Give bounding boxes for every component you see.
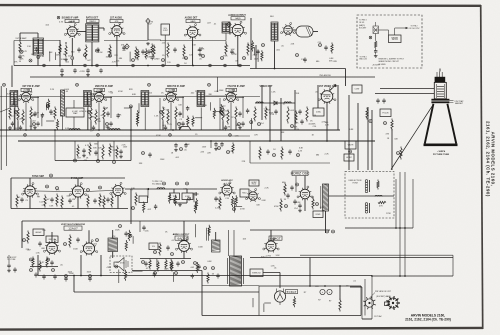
resistor R41: [44, 195, 46, 208]
capacitor C46: [214, 196, 217, 201]
capacitor C21: [94, 150, 97, 155]
capacitor C83: [99, 68, 102, 73]
wire V5 to can: [292, 29, 296, 31]
capacitor C2: [77, 47, 80, 52]
wire vert va 1: [317, 85, 319, 108]
wire bottom stub: [362, 318, 372, 320]
svg-text:1.5K: 1.5K: [192, 45, 197, 47]
svg-text:TO YOKE: TO YOKE: [7, 259, 16, 261]
test point on bus: [239, 64, 242, 67]
svg-text:150K: 150K: [115, 230, 120, 232]
value labels V3: [182, 45, 205, 60]
wire trap drop 2: [186, 189, 188, 193]
wire T12 to tube: [92, 95, 94, 97]
tube V21 sync amp: [69, 183, 87, 199]
CRT base cap pins: [437, 72, 442, 78]
svg-text:2.2K: 2.2K: [233, 54, 238, 56]
test point N: [319, 44, 322, 47]
pin labels IF gap 3: [190, 91, 199, 94]
svg-text:SOCKET: SOCKET: [359, 28, 367, 30]
resistor R30: [254, 107, 256, 122]
svg-text:150K: 150K: [224, 110, 229, 112]
test point: [178, 123, 181, 126]
pin labels stage 2: [88, 93, 95, 96]
wire bus bottom frame: [202, 315, 361, 317]
resistor R39: [281, 147, 283, 160]
pin labels stage 1: [29, 92, 33, 96]
svg-text:1.5K: 1.5K: [105, 126, 110, 128]
wire V28 up: [183, 221, 185, 241]
test point: [233, 208, 236, 211]
svg-text:3.3K: 3.3K: [198, 104, 203, 106]
CRT funnel right wall: [447, 104, 456, 144]
wire stub: [175, 121, 177, 131]
test point: [89, 275, 92, 278]
svg-text:• 16RP4: • 16RP4: [437, 150, 446, 153]
resistor R66: [171, 261, 173, 272]
box volume: [149, 243, 158, 250]
speaker: [114, 258, 124, 272]
svg-text:470K: 470K: [185, 144, 190, 146]
svg-text:150K: 150K: [86, 271, 91, 273]
test point: [169, 134, 172, 137]
value labels psu: [318, 300, 332, 303]
svg-text:100K: 100K: [198, 246, 203, 248]
wire misc horizontal: [124, 107, 130, 109]
wire bus IF 3: [0, 135, 250, 137]
wire drop c2: [147, 189, 149, 198]
capacitor C7: [198, 47, 201, 52]
test point J: [202, 55, 205, 58]
wire B+ feed long: [250, 257, 453, 259]
test point on bus: [162, 64, 165, 67]
resistor R35: [400, 147, 402, 160]
svg-text:RATIO: RATIO: [90, 20, 97, 23]
resistor R68: [339, 299, 341, 312]
capacitor C4: [122, 45, 125, 50]
wire vertical right x358: [357, 103, 359, 170]
ground gnd traps: [178, 204, 182, 207]
capacitor C63: [53, 274, 56, 279]
wire: [186, 200, 188, 204]
wire stage 2 vert b: [110, 97, 112, 119]
test point E: [96, 49, 99, 52]
resistor misc resistor: [174, 195, 176, 206]
junction: [274, 68, 276, 70]
wire signal rail A3: [160, 40, 226, 42]
svg-text:SWITCH: SWITCH: [392, 39, 398, 41]
test point stage input: [148, 83, 151, 86]
svg-text:4.7K: 4.7K: [59, 21, 64, 23]
wire frame right: [360, 286, 362, 316]
wire stage 3 vert b: [182, 97, 184, 119]
yoke vertical coil: [365, 203, 369, 213]
ground gnd phono: [374, 55, 378, 58]
box interlock: [250, 269, 263, 277]
test point: [194, 262, 197, 265]
pin labels IF gap 1: [50, 89, 70, 93]
tube V14 6CB6: [223, 89, 239, 103]
test point: [186, 182, 189, 185]
wire V13 plate out: [176, 97, 185, 99]
resistor R8: [183, 45, 185, 58]
value labels V2: [105, 45, 125, 64]
resistor misc resistor: [187, 116, 189, 127]
svg-text:1ST AUDIO: 1ST AUDIO: [110, 17, 122, 20]
junction: [100, 275, 102, 277]
capacitor C23: [148, 152, 151, 157]
test point: [47, 258, 50, 261]
wire to CRT cathode: [380, 88, 435, 90]
svg-text:6CB6: 6CB6: [229, 90, 235, 92]
junction: [399, 227, 401, 229]
label box tube type V2: [110, 19, 123, 22]
wire damper up: [270, 230, 272, 241]
svg-text:TRAP: TRAP: [73, 112, 79, 115]
box 4.5MC trap 2: [313, 108, 324, 116]
resistor R63: [149, 259, 151, 270]
wire trap feed: [73, 100, 75, 108]
resistor R61: [39, 261, 41, 272]
capacitor C24: [174, 143, 177, 148]
wire frame top: [259, 285, 361, 287]
wire bus AVC: [30, 76, 375, 78]
svg-text:100K: 100K: [172, 93, 177, 95]
resistor R55: [159, 243, 161, 256]
wire drop 81: [80, 255, 82, 276]
resistor misc resistor: [293, 296, 295, 307]
capacitor C22: [119, 149, 122, 154]
svg-text:2.2K: 2.2K: [325, 154, 330, 156]
box drive: [313, 211, 323, 218]
capacitor C50: [38, 241, 41, 246]
test point: [384, 122, 387, 125]
capacitor C45: [193, 192, 198, 195]
wire J1 down: [147, 24, 149, 40]
wire bus sync top: [11, 177, 125, 179]
wire jack to switch: [379, 29, 389, 31]
svg-text:1.5K: 1.5K: [271, 92, 276, 94]
capacitor misc capacitor: [246, 108, 249, 113]
capacitor misc capacitor: [153, 272, 156, 277]
wire signal rail A1: [14, 40, 60, 42]
value labels audio row: [145, 267, 173, 270]
wire stage 2 vert a: [87, 98, 89, 130]
svg-text:6AU6: 6AU6: [69, 20, 75, 23]
transformer T13: [141, 91, 149, 107]
capacitor C27: [220, 142, 223, 147]
resistor R3b: [167, 110, 169, 125]
svg-text:3RD PIX IF AMP: 3RD PIX IF AMP: [167, 85, 185, 88]
svg-text:4.7K: 4.7K: [23, 51, 28, 53]
svg-text:470K: 470K: [106, 267, 111, 269]
wire flange tap right: [449, 100, 453, 102]
svg-text:4.7K: 4.7K: [85, 145, 90, 147]
wire bus vert section: [22, 220, 250, 222]
resistor R49: [280, 199, 282, 212]
wire vert right 2: [255, 45, 257, 69]
coil L1 peaking: [69, 129, 80, 130]
svg-text:2161, 2162, 2164 (Ch. TE-290): 2161, 2162, 2164 (Ch. TE-290): [486, 121, 491, 197]
wire misc vertical: [45, 103, 47, 111]
capacitor C2a: [106, 111, 109, 116]
capacitor C10: [324, 45, 327, 50]
wire drop b2: [97, 141, 99, 161]
svg-text:4.5MC: 4.5MC: [316, 112, 322, 114]
resistor R24: [116, 146, 118, 159]
resistor R43: [61, 196, 63, 209]
resistor R53: [69, 235, 71, 248]
svg-text:OF V14. 275V: OF V14. 275V: [409, 28, 421, 30]
capacitor misc capacitor: [186, 106, 189, 111]
junction: [54, 129, 56, 131]
svg-text:HEIGHT: HEIGHT: [35, 232, 41, 234]
box 4.5MC trap: [66, 108, 84, 117]
junction: [371, 275, 373, 277]
capacitor C2c: [109, 121, 112, 126]
test point: [33, 123, 36, 126]
value labels lower right: [273, 148, 329, 157]
transformer T14: [197, 91, 205, 107]
svg-text:3.3K: 3.3K: [299, 148, 304, 150]
test point L: [243, 57, 246, 60]
wire: [19, 33, 21, 41]
wire yoke lead 3: [404, 172, 406, 276]
capacitor C85: [374, 49, 377, 54]
wire IF signal rail: [0, 96, 260, 98]
CRT faceplate: [424, 144, 458, 147]
wire misc vertical: [251, 118, 253, 129]
arrow on sync link bus: [146, 188, 149, 190]
wire vert det 1: [261, 85, 263, 120]
label box tube type V4: [231, 17, 245, 20]
test point: [296, 183, 299, 186]
svg-text:150K: 150K: [219, 90, 224, 92]
wire yoke lead 2: [399, 172, 401, 276]
IF can: [296, 26, 313, 37]
capacitor misc capacitor: [35, 47, 38, 52]
box volume control: [161, 24, 170, 35]
test point: [56, 187, 59, 190]
resistor R56: [284, 183, 286, 196]
resistor R4c: [235, 107, 237, 121]
test point: [47, 105, 50, 108]
tube socket view 2: [386, 296, 400, 310]
svg-text:470K: 470K: [90, 117, 95, 119]
junction: [269, 140, 271, 142]
resistor R51: [378, 201, 386, 203]
resistor R3a: [162, 107, 164, 122]
capacitor C35: [266, 149, 269, 154]
wire stub: [30, 121, 32, 131]
resistor R67: [207, 273, 209, 284]
box horiz control: [344, 154, 354, 161]
wire misc vertical: [129, 52, 131, 62]
wire V28 down: [183, 251, 185, 258]
wire J1 to vol: [148, 39, 161, 41]
svg-text:PIN VIEW OF CRT: PIN VIEW OF CRT: [375, 291, 392, 293]
wire sync link 2: [84, 191, 113, 192]
wire V4 down: [237, 36, 239, 66]
resistor misc resistor: [194, 202, 196, 213]
capacitor misc capacitor: [154, 204, 157, 209]
test point H: [162, 59, 165, 62]
test point: [332, 230, 335, 233]
test point: [175, 272, 178, 275]
resistor R23: [109, 144, 111, 157]
junction: [91, 65, 93, 67]
wire misc horizontal: [133, 270, 143, 272]
value labels horiz osc: [282, 189, 301, 210]
resistor R20: [77, 145, 79, 158]
wire vert right 1: [250, 18, 252, 60]
wire T12 down: [87, 108, 89, 131]
transformer T4 can: [222, 22, 230, 33]
wire right corner drop: [452, 255, 454, 276]
svg-text:6.8K: 6.8K: [224, 46, 229, 48]
svg-text:TO PIN 3: TO PIN 3: [359, 20, 366, 22]
ground gnd stage 3: [178, 126, 182, 129]
test point: [132, 207, 135, 210]
svg-text:AUDIO DET: AUDIO DET: [185, 17, 198, 20]
transformer T11: [10, 91, 18, 107]
resistor R32: [306, 107, 308, 122]
wire misc horizontal: [195, 117, 202, 119]
test point on bus: [177, 64, 180, 67]
test point: [154, 251, 157, 254]
pin labels det row: [271, 92, 324, 96]
resistor misc resistor: [145, 48, 147, 59]
capacitor C53: [142, 225, 145, 230]
wire T32 up: [215, 232, 217, 240]
svg-text:2.2K: 2.2K: [294, 122, 299, 124]
label bottom title: [405, 313, 451, 321]
svg-text:3.3K: 3.3K: [49, 205, 54, 207]
test jack J3: [227, 22, 231, 27]
wire top link: [20, 32, 38, 34]
test point: [46, 185, 49, 188]
svg-text:VIDEO DET: VIDEO DET: [260, 85, 273, 88]
test point: [285, 205, 288, 208]
wire misc vertical: [156, 259, 158, 267]
resistor R33: [366, 108, 368, 120]
capacitor C43: [93, 198, 96, 203]
svg-text:150K: 150K: [160, 159, 165, 161]
CRT neck: [434, 82, 446, 98]
coil L2 peaking: [109, 129, 120, 130]
wire left drop: [21, 221, 23, 248]
label ion trap magnet: [450, 100, 465, 105]
svg-text:6.8K: 6.8K: [226, 126, 231, 128]
wire bus B+ low: [38, 275, 372, 277]
tube V3 6AV6: [184, 24, 201, 39]
junction: [404, 227, 406, 229]
capacitor C34: [300, 119, 303, 124]
capacitor C47: [293, 199, 296, 204]
svg-text:6.8K: 6.8K: [65, 128, 70, 130]
test point: [160, 111, 163, 114]
wire misc vertical: [49, 52, 51, 62]
electrolytic capacitor C70: [320, 289, 325, 294]
test point: [74, 159, 77, 162]
test point: [113, 161, 116, 164]
wire misc vertical: [207, 228, 209, 241]
svg-text:BLK: BLK: [270, 16, 274, 18]
capacitor C9: [256, 49, 259, 54]
coil L11: [256, 102, 263, 103]
wire boost feed long: [300, 254, 453, 256]
pin labels A row 2: [148, 21, 217, 25]
svg-text:6CB6: 6CB6: [97, 90, 103, 92]
wire flyback bottom drop: [325, 211, 327, 233]
svg-text:YOKE: YOKE: [352, 183, 358, 185]
resistor R52: [27, 231, 29, 244]
wire drop b5: [249, 141, 251, 163]
phono input jack: [373, 22, 379, 34]
capacitor C33: [274, 109, 277, 114]
test point: [119, 225, 122, 228]
wire T11 to tube: [19, 95, 22, 97]
ground gnd A3: [198, 53, 202, 56]
svg-text:470K: 470K: [240, 209, 245, 211]
svg-text:470K: 470K: [274, 206, 279, 208]
junction: [25, 129, 27, 131]
extra value labels band B lower: [84, 147, 246, 165]
test point: [220, 111, 223, 114]
junction: [309, 285, 311, 287]
resistor R12: [331, 43, 333, 54]
svg-text:6.8K: 6.8K: [85, 111, 90, 113]
wire stage 4 vert b: [242, 97, 244, 119]
svg-text:270K: 270K: [386, 213, 391, 215]
test point: [258, 123, 261, 126]
resistor R34: [391, 119, 393, 131]
junction: [192, 65, 194, 67]
svg-text:6.8K: 6.8K: [262, 200, 267, 202]
wire left sync drop: [10, 178, 12, 209]
deflection yoke dashed box: [345, 172, 394, 219]
wire audio row: [140, 258, 191, 260]
resistor R21: [89, 143, 91, 156]
wire lower right rail: [250, 162, 330, 164]
pin labels IF gap 2: [110, 89, 133, 95]
ground gnd A1: [146, 42, 150, 45]
svg-text:1.5K: 1.5K: [301, 59, 306, 61]
diode CR1 video det: [274, 101, 277, 105]
misc test point: [188, 197, 191, 200]
test point: [97, 160, 100, 163]
wire vert va 2: [337, 85, 339, 130]
test point: [163, 182, 166, 185]
ground gnd stage 4: [238, 126, 242, 129]
svg-text:470K: 470K: [120, 262, 125, 264]
wire frame left: [258, 286, 260, 316]
extra value labels band C: [22, 188, 221, 211]
capacitor C52: [166, 245, 169, 250]
resistor R50: [377, 180, 379, 190]
svg-text:470K: 470K: [156, 135, 161, 137]
capacitor C76: [49, 109, 52, 114]
ground gnd stage 1: [33, 126, 37, 129]
wire signal rail A2: [104, 40, 148, 42]
capacitor C32: [382, 98, 385, 103]
wire audio row 2: [132, 270, 202, 272]
wire drop 310: [309, 258, 311, 287]
label box audio out header: [175, 236, 188, 240]
wire misc vertical: [132, 236, 134, 244]
wire bus lower left: [55, 160, 131, 162]
wire bus far right: [372, 275, 453, 277]
